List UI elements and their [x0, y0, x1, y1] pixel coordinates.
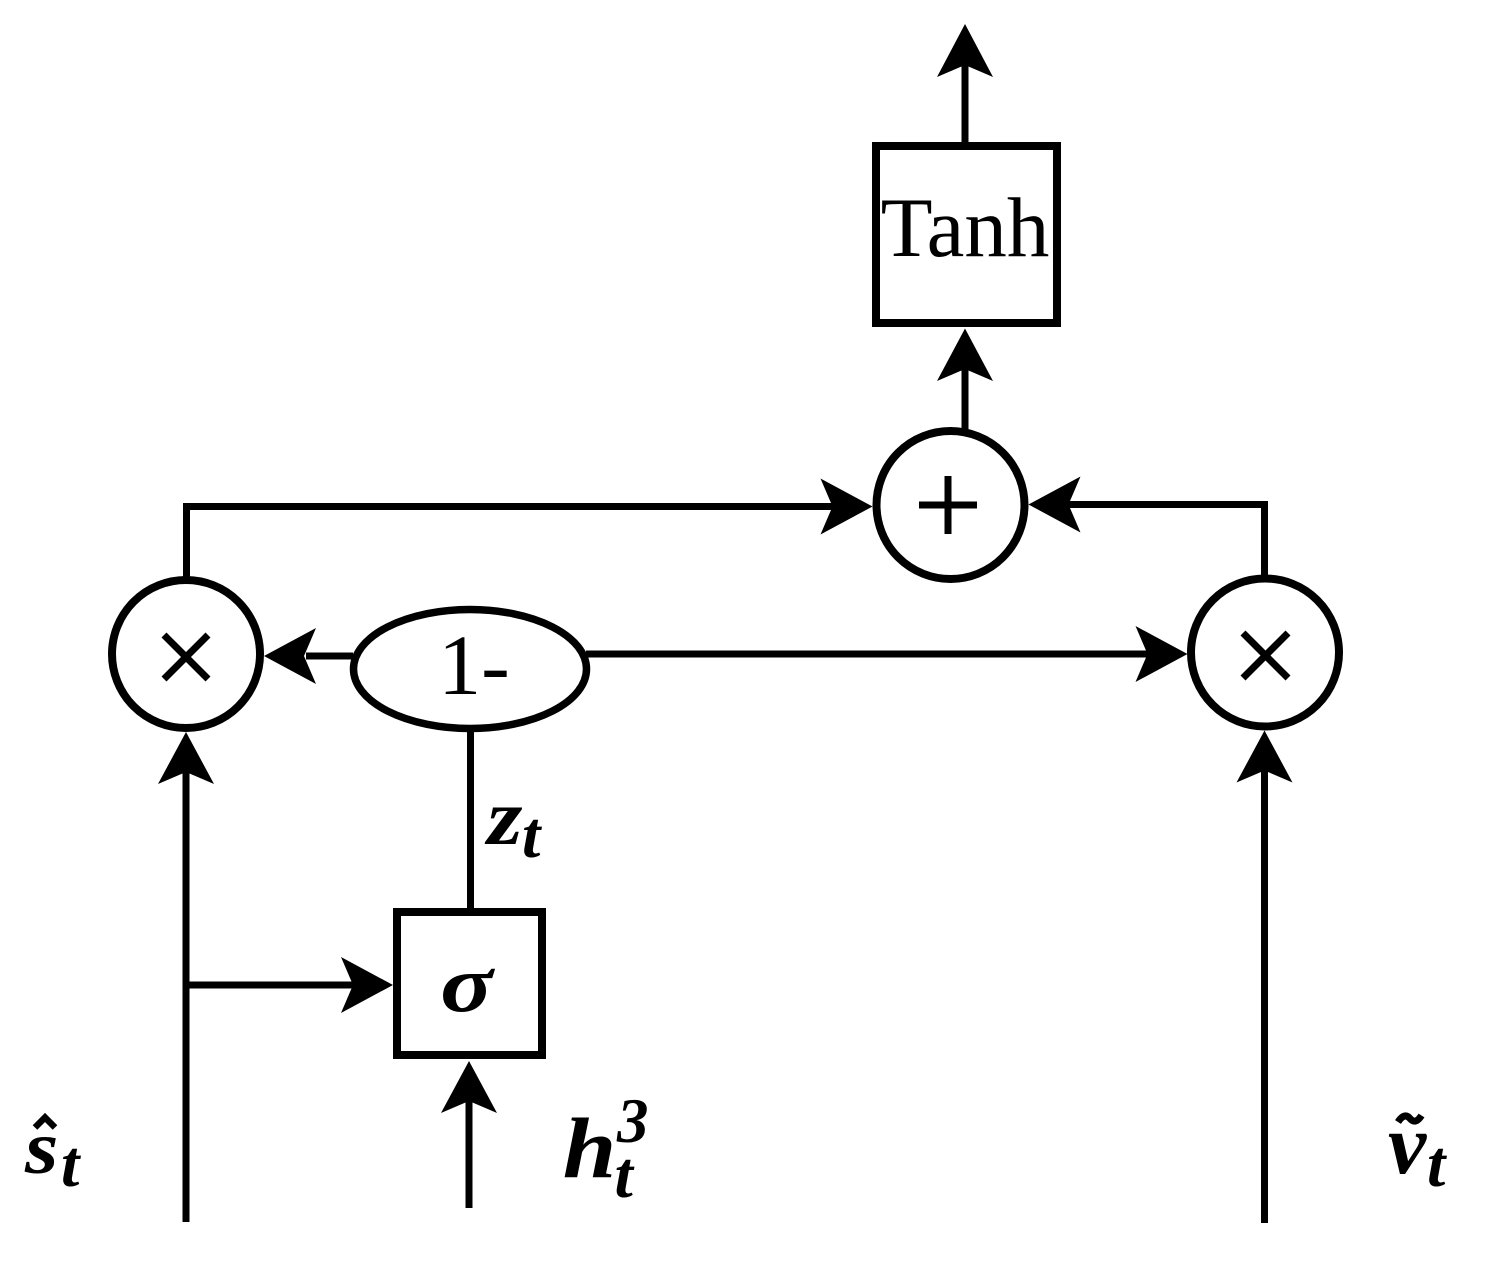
output arrow (Tanh top, up) — [937, 24, 993, 143]
label v_t tilde — [1388, 1096, 1447, 1201]
wire left multiply to plus (up then right, arrow into plus left) — [187, 479, 873, 579]
multiply node right — [1191, 579, 1339, 727]
svg-text:v: v — [1388, 1096, 1427, 1192]
svg-text:1-: 1- — [438, 617, 510, 713]
label h_t^3 — [563, 1086, 649, 1212]
svg-text:h: h — [563, 1101, 617, 1196]
wire right multiply to plus (up then left, arrow into plus right) — [1029, 477, 1265, 578]
svg-text:σ: σ — [440, 940, 495, 1029]
plus node — [877, 431, 1025, 579]
svg-text:t: t — [1427, 1128, 1447, 1201]
svg-text:z: z — [484, 774, 522, 862]
svg-text:t: t — [615, 1139, 635, 1212]
Tanh box — [876, 146, 1057, 323]
arrow h input into sigma bottom (up) — [441, 1061, 497, 1208]
multiply node left — [112, 580, 260, 728]
svg-text:t: t — [61, 1128, 81, 1201]
wire v_t input (up into right multiply) — [1237, 731, 1293, 1224]
arrow ellipse to left multiply (left) — [264, 628, 353, 684]
one-minus ellipse — [354, 610, 587, 729]
wire ellipse to sigma (z_t wire) — [467, 726, 474, 912]
label z_t — [484, 774, 542, 872]
branch arrow from s_t wire into sigma (right) — [186, 957, 393, 1013]
arrow plus to Tanh (up) — [937, 329, 993, 431]
sigma box — [397, 912, 542, 1055]
arrow ellipse to right multiply (right) — [586, 626, 1188, 682]
svg-text:t: t — [522, 799, 542, 872]
wire s_t input (up into left multiply) — [158, 732, 214, 1222]
svg-text:Tanh: Tanh — [881, 181, 1050, 275]
label s_t hat — [24, 1106, 81, 1201]
